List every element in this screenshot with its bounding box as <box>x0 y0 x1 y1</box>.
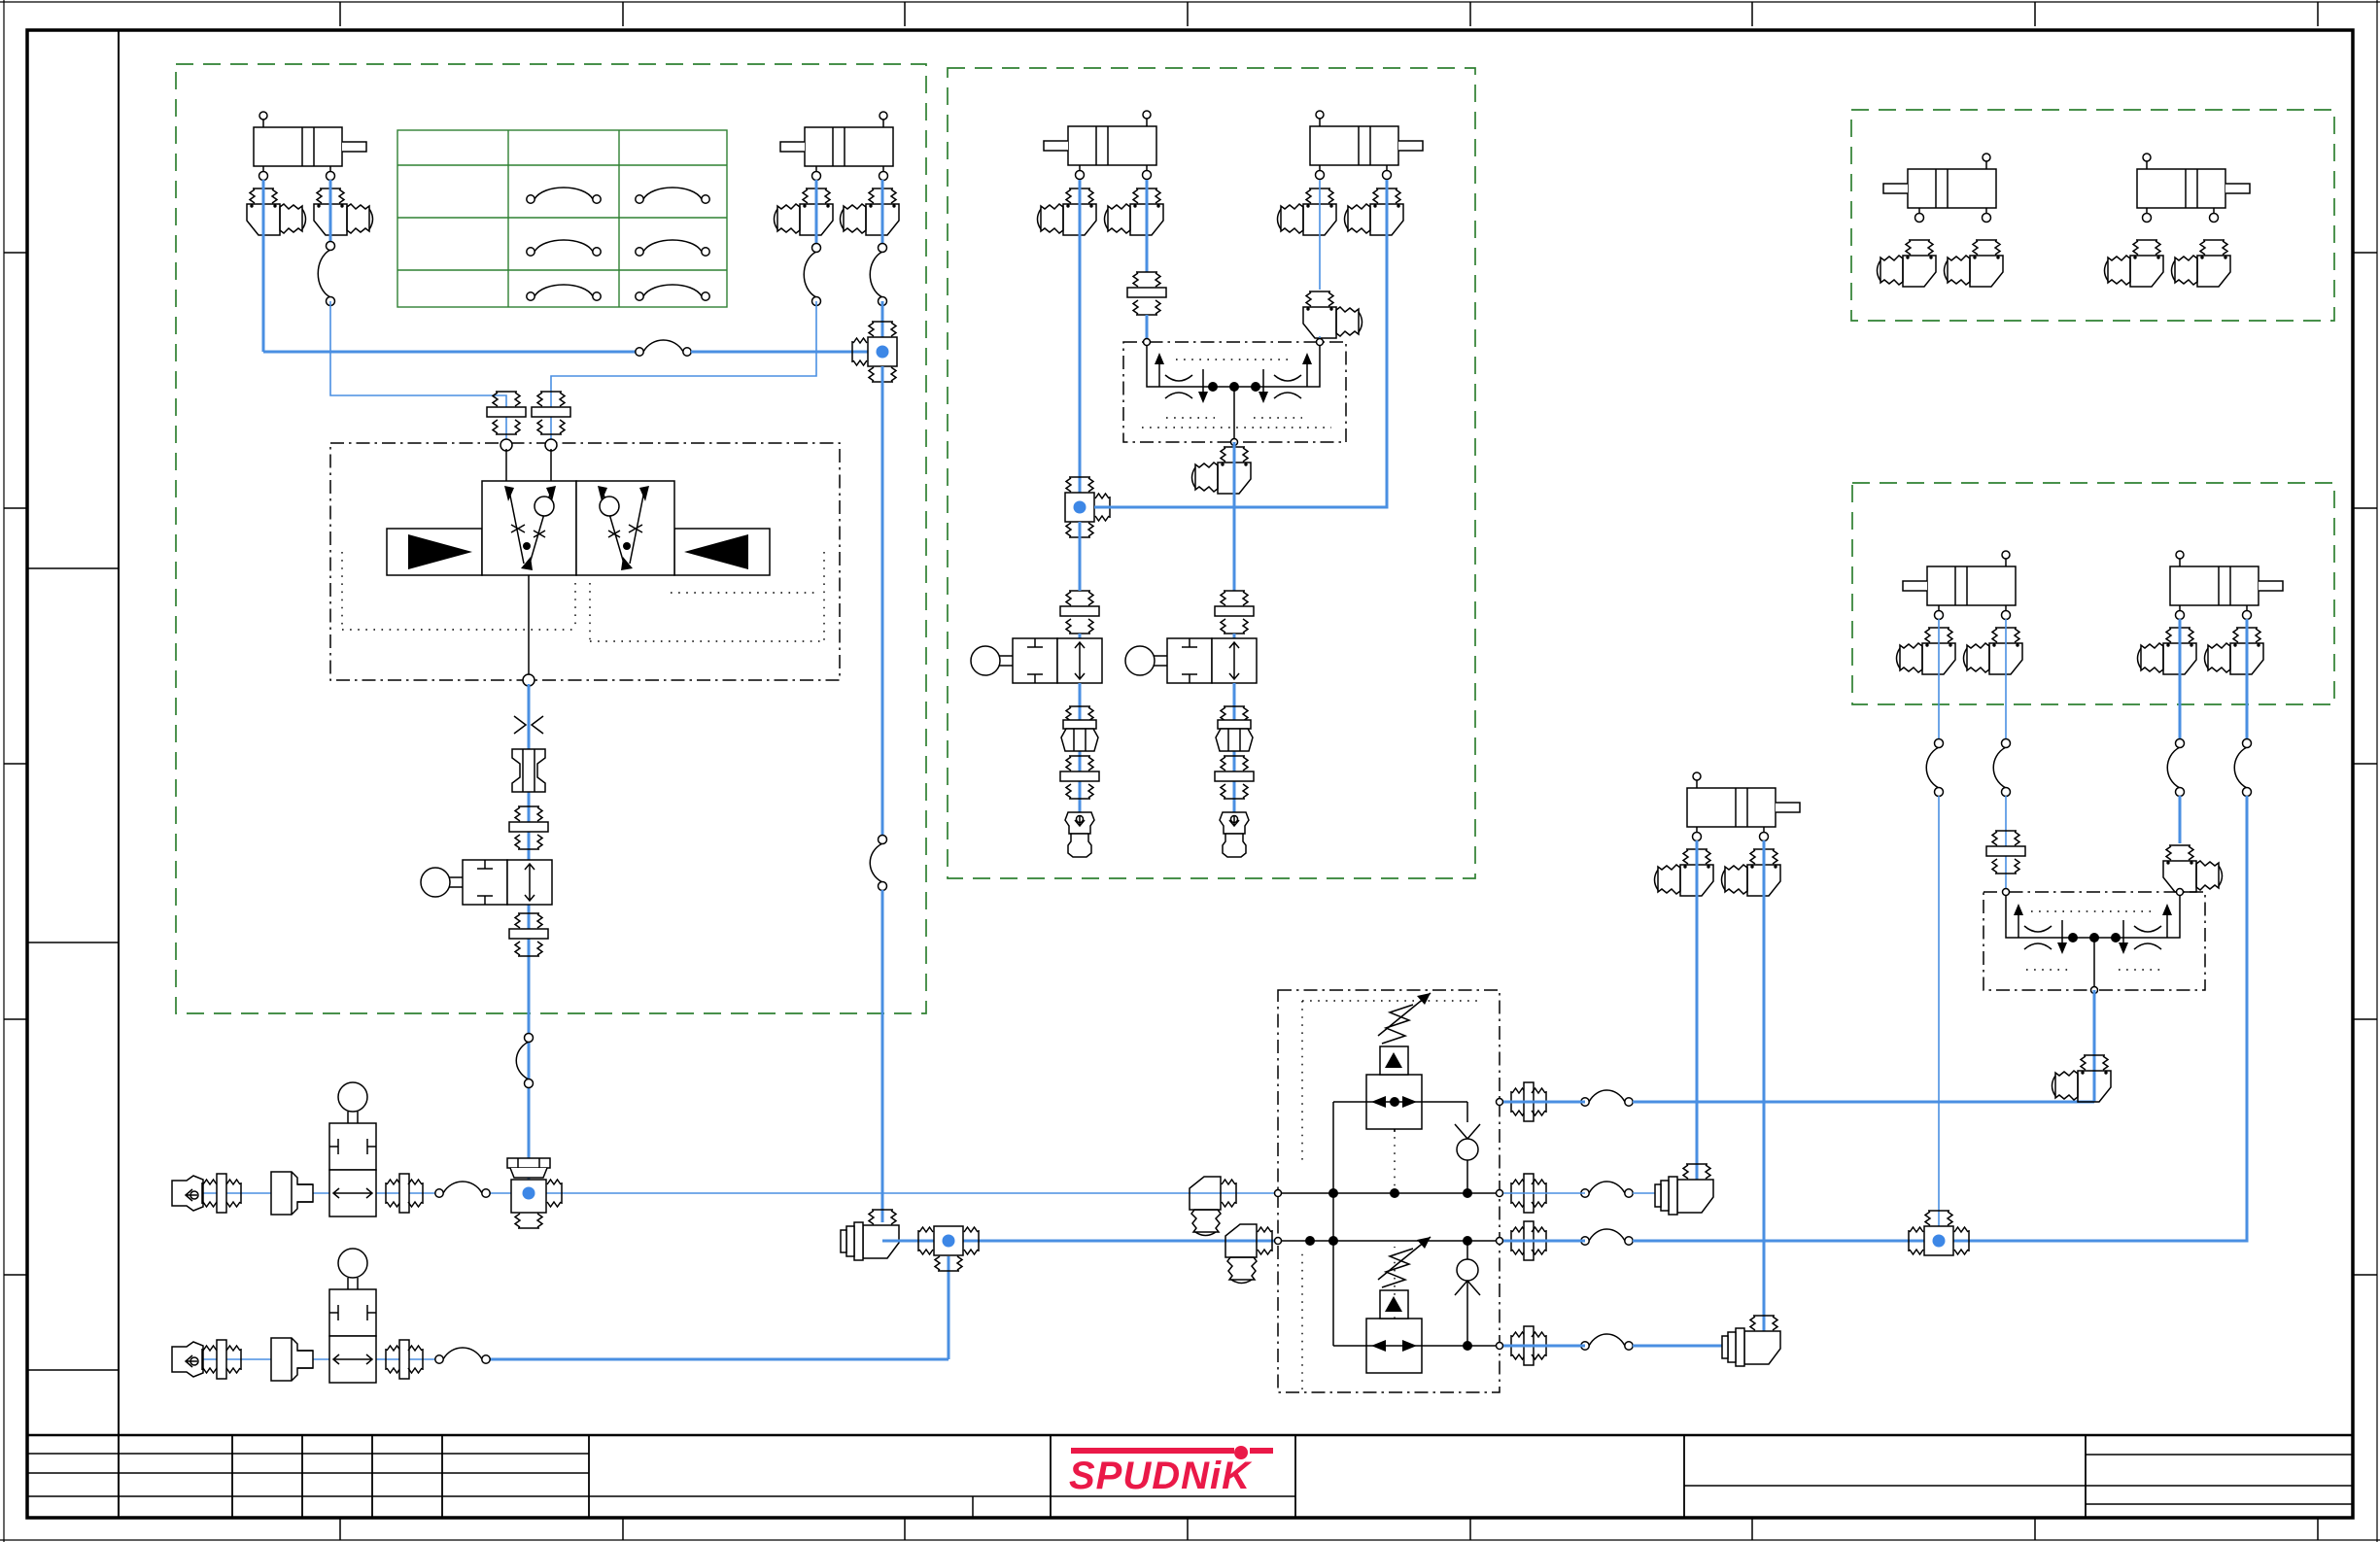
wire lower run <box>882 1240 1274 1243</box>
grease coupler <box>172 1176 203 1211</box>
counterbalance valve internals <box>2006 892 2180 938</box>
junction <box>523 1187 535 1200</box>
hose (table) <box>643 188 702 199</box>
junction <box>1933 1235 1946 1248</box>
wire CB drain <box>2093 990 2096 1102</box>
pilot dotted lines manifold <box>1302 1001 1482 1389</box>
wire <box>1319 336 1321 342</box>
quick coupler <box>1220 812 1249 857</box>
pilot dotted lines <box>342 552 824 641</box>
elbow fitting (CYL2 port B) <box>841 188 900 235</box>
port circle valve bottom <box>523 674 535 686</box>
hose <box>2167 747 2180 788</box>
hose <box>643 340 683 352</box>
wire <box>1079 683 1082 834</box>
check valve CK2 <box>1455 1281 1480 1295</box>
wire control line A <box>185 1192 439 1194</box>
hose <box>443 1182 482 1193</box>
fitting (manifold port) <box>1511 1174 1546 1213</box>
wire <box>2179 796 2182 843</box>
junction <box>1074 501 1087 514</box>
elbow fitting <box>2205 628 2264 674</box>
hose (table) <box>643 285 702 296</box>
tee fitting T4 <box>1065 477 1110 537</box>
wire down to lower elbow <box>881 890 884 1222</box>
wire to CB valve <box>1146 315 1149 342</box>
elbow fitting (CYL1 port A) <box>247 188 306 235</box>
group box 4 (right middle cylinders) <box>1852 483 2334 704</box>
group box 2 (middle assembly) <box>948 68 1475 878</box>
wire control line B <box>185 1358 439 1360</box>
wire CYL5-A <box>1319 180 1321 290</box>
wire relief line to elbow <box>1503 1101 2094 1104</box>
tee fitting T1 <box>852 322 897 382</box>
elbow to relief2 line <box>1722 1316 1780 1366</box>
shutoff valve <box>971 638 1102 683</box>
elbow fitting <box>1945 240 2004 287</box>
zone tick marks bottom <box>340 1518 2318 1540</box>
bulkhead fitting <box>202 1174 241 1213</box>
junction <box>943 1235 955 1248</box>
push valve PVA <box>329 1082 376 1216</box>
hose <box>870 843 882 882</box>
cylinder CYL8 <box>1883 154 1996 223</box>
elbow fitting (CYL1 port B) <box>314 188 373 235</box>
cylinder CYL3 <box>1687 772 1800 841</box>
cylinder CYL4 <box>1044 111 1156 180</box>
wire CYL7-A <box>2179 619 2182 743</box>
wire relief2 line right <box>1503 1345 1763 1348</box>
wire line B corner <box>948 1256 950 1359</box>
wire down and across <box>1953 796 2247 1241</box>
wire down to tee <box>1938 796 1940 1226</box>
counterbalance valve boundary <box>1983 892 2205 990</box>
wire hose to tee <box>691 351 882 354</box>
fitting (manifold port) <box>1511 1326 1546 1365</box>
hose <box>804 252 816 297</box>
bulkhead fitting <box>202 1340 241 1379</box>
fitting (manifold port) <box>1511 1082 1546 1121</box>
valve drain line <box>528 575 530 676</box>
hose <box>1589 1229 1625 1241</box>
wire <box>2005 796 2007 892</box>
elbow fitting <box>1878 240 1937 287</box>
elbow fitting <box>1278 188 1337 235</box>
wire CYL3-B <box>1763 840 1766 1346</box>
wire CYL1-B down <box>329 180 332 246</box>
wire bus1 to lone cylinder <box>1503 1192 1696 1194</box>
title block frame <box>27 1434 2353 1437</box>
flow control valve assembly boundary <box>330 443 840 680</box>
elbow fitting <box>1105 188 1164 235</box>
shutoff valve V1 <box>421 860 552 905</box>
cylinder CYL5 <box>1310 111 1423 180</box>
wire <box>1233 634 1236 638</box>
wire to valve port B <box>551 301 816 442</box>
left margin column <box>118 30 120 1518</box>
fitting <box>1986 831 2025 874</box>
cylinder CYL9 <box>2137 154 2250 223</box>
wire <box>1079 634 1082 638</box>
elbow fitting <box>2052 1055 2112 1102</box>
wire valve drain down <box>528 684 531 1180</box>
wire to valve port A <box>330 301 506 442</box>
check valve CK1 <box>1455 1124 1480 1139</box>
elbow fitting <box>1897 628 1956 674</box>
manifold port line RV1 <box>1394 1129 1396 1132</box>
orifice symbol <box>514 716 543 734</box>
cylinder CYL1 <box>254 112 366 181</box>
hose <box>516 1042 529 1079</box>
relief manifold boundary <box>1278 990 1500 1392</box>
pilot dotted lines <box>1142 360 1331 428</box>
hose <box>318 250 330 297</box>
elbow into manifold port P1 <box>1190 1177 1236 1236</box>
elbow fitting <box>1303 291 1362 338</box>
flange fitting <box>1061 706 1098 751</box>
port circles valve top <box>500 439 512 451</box>
hose <box>443 1348 482 1359</box>
elbow below check assembly <box>1192 447 1252 494</box>
SPUDNIK logo <box>1069 1446 1273 1497</box>
hose <box>1926 747 1939 788</box>
reducer fitting <box>271 1338 313 1381</box>
fitting <box>509 806 548 849</box>
reducer fitting <box>271 1172 313 1215</box>
wire CYL4-A <box>1079 180 1082 493</box>
wire <box>1233 683 1236 834</box>
wire CYL2-A down <box>815 180 818 248</box>
directional valve D1 body <box>482 481 576 575</box>
wire into tee <box>881 301 884 352</box>
cylinder CYL7 <box>2170 551 2283 620</box>
elbow into manifold port P2 <box>1225 1224 1272 1284</box>
wire CYL6-A <box>1938 619 1940 743</box>
junction <box>877 346 889 359</box>
fitting <box>1215 591 1254 634</box>
wire CYL4-B <box>1146 180 1149 272</box>
main pressure wire across <box>263 351 636 354</box>
wire tee down to elbow <box>881 366 884 840</box>
fitting <box>386 1174 423 1213</box>
fitting <box>1060 756 1099 799</box>
title block revision rows <box>27 1454 589 1496</box>
tee fitting T3 <box>918 1226 979 1271</box>
hose schedule table <box>397 130 727 307</box>
fitting above valve port B <box>532 392 570 434</box>
wire CYL6-B <box>2005 619 2007 743</box>
zone tick marks left <box>4 253 27 1275</box>
hose <box>1589 1090 1625 1102</box>
hose (table) <box>535 285 593 296</box>
fitting above valve port A <box>487 392 526 434</box>
hose (table) <box>535 188 593 199</box>
quick coupler <box>1065 812 1094 857</box>
hose <box>2234 747 2247 788</box>
manifold junction dots <box>1328 1188 1338 1198</box>
tee fitting hex T2 <box>507 1158 562 1228</box>
hose <box>1993 747 2006 788</box>
title block right cells <box>1684 1455 2353 1504</box>
manifold bus lines <box>1282 1193 1496 1241</box>
title block center cells <box>589 1496 1295 1518</box>
wire CYL7-B <box>2246 619 2249 743</box>
fitting <box>1127 272 1166 315</box>
hose (table) <box>643 240 702 252</box>
relief valve RV1 <box>1366 1075 1422 1129</box>
group box 3 (top right cylinders) <box>1851 110 2334 321</box>
wire bus2 to tee <box>1503 1240 1924 1243</box>
union fitting <box>512 749 545 792</box>
elbow fitting <box>1345 188 1404 235</box>
hose <box>1589 1182 1625 1193</box>
elbow fitting <box>2138 628 2197 674</box>
elbow fitting <box>2163 845 2223 892</box>
svg-text:SPUDNiK: SPUDNiK <box>1069 1455 1253 1497</box>
elbow fitting <box>1038 188 1097 235</box>
wire CYL2-B down <box>881 180 884 248</box>
elbow to bus1 <box>1655 1164 1713 1215</box>
fitting <box>1060 591 1099 634</box>
tee fitting T5 <box>1909 1211 1969 1255</box>
wire tee down <box>1079 522 1082 591</box>
grease coupler <box>172 1342 203 1377</box>
fitting <box>509 913 548 956</box>
relief valve RV2 <box>1366 1319 1422 1373</box>
cylinder CYL2 <box>780 112 893 181</box>
wire crossover <box>1094 180 1387 507</box>
fitting <box>386 1340 423 1379</box>
pilot check valve internals <box>1147 342 1320 387</box>
wire CYL1-A down <box>262 180 265 352</box>
shutoff valve <box>1125 638 1257 683</box>
wire CYL3-A <box>1696 840 1699 1193</box>
elbow at lower run <box>841 1210 899 1260</box>
fitting (manifold port) <box>1511 1221 1546 1260</box>
zone tick marks right <box>2353 253 2377 1275</box>
hose <box>1589 1334 1625 1346</box>
fitting <box>1215 756 1254 799</box>
directional valve D1 solenoid left <box>387 529 482 575</box>
elbow fitting (CYL3-B) <box>1722 849 1781 896</box>
elbow fitting <box>2172 240 2231 287</box>
elbow fitting (CYL3-A) <box>1655 849 1714 896</box>
zone tick marks top <box>340 2 2318 26</box>
elbow fitting <box>2105 240 2164 287</box>
pilot dotted lines <box>2026 911 2162 970</box>
cylinder CYL6 <box>1903 551 2016 620</box>
elbow fitting (CYL2 port A) <box>775 188 834 235</box>
push valve PVB <box>329 1249 376 1383</box>
wire down <box>1233 442 1236 591</box>
group box 1 (left assembly) <box>176 64 926 1013</box>
flange fitting <box>1216 706 1253 751</box>
directional valve D1 solenoid right <box>674 529 770 575</box>
hose <box>870 252 882 297</box>
elbow fitting <box>1964 628 2023 674</box>
hose (table) <box>535 240 593 252</box>
pilot check valve assembly boundary <box>1123 342 1346 442</box>
